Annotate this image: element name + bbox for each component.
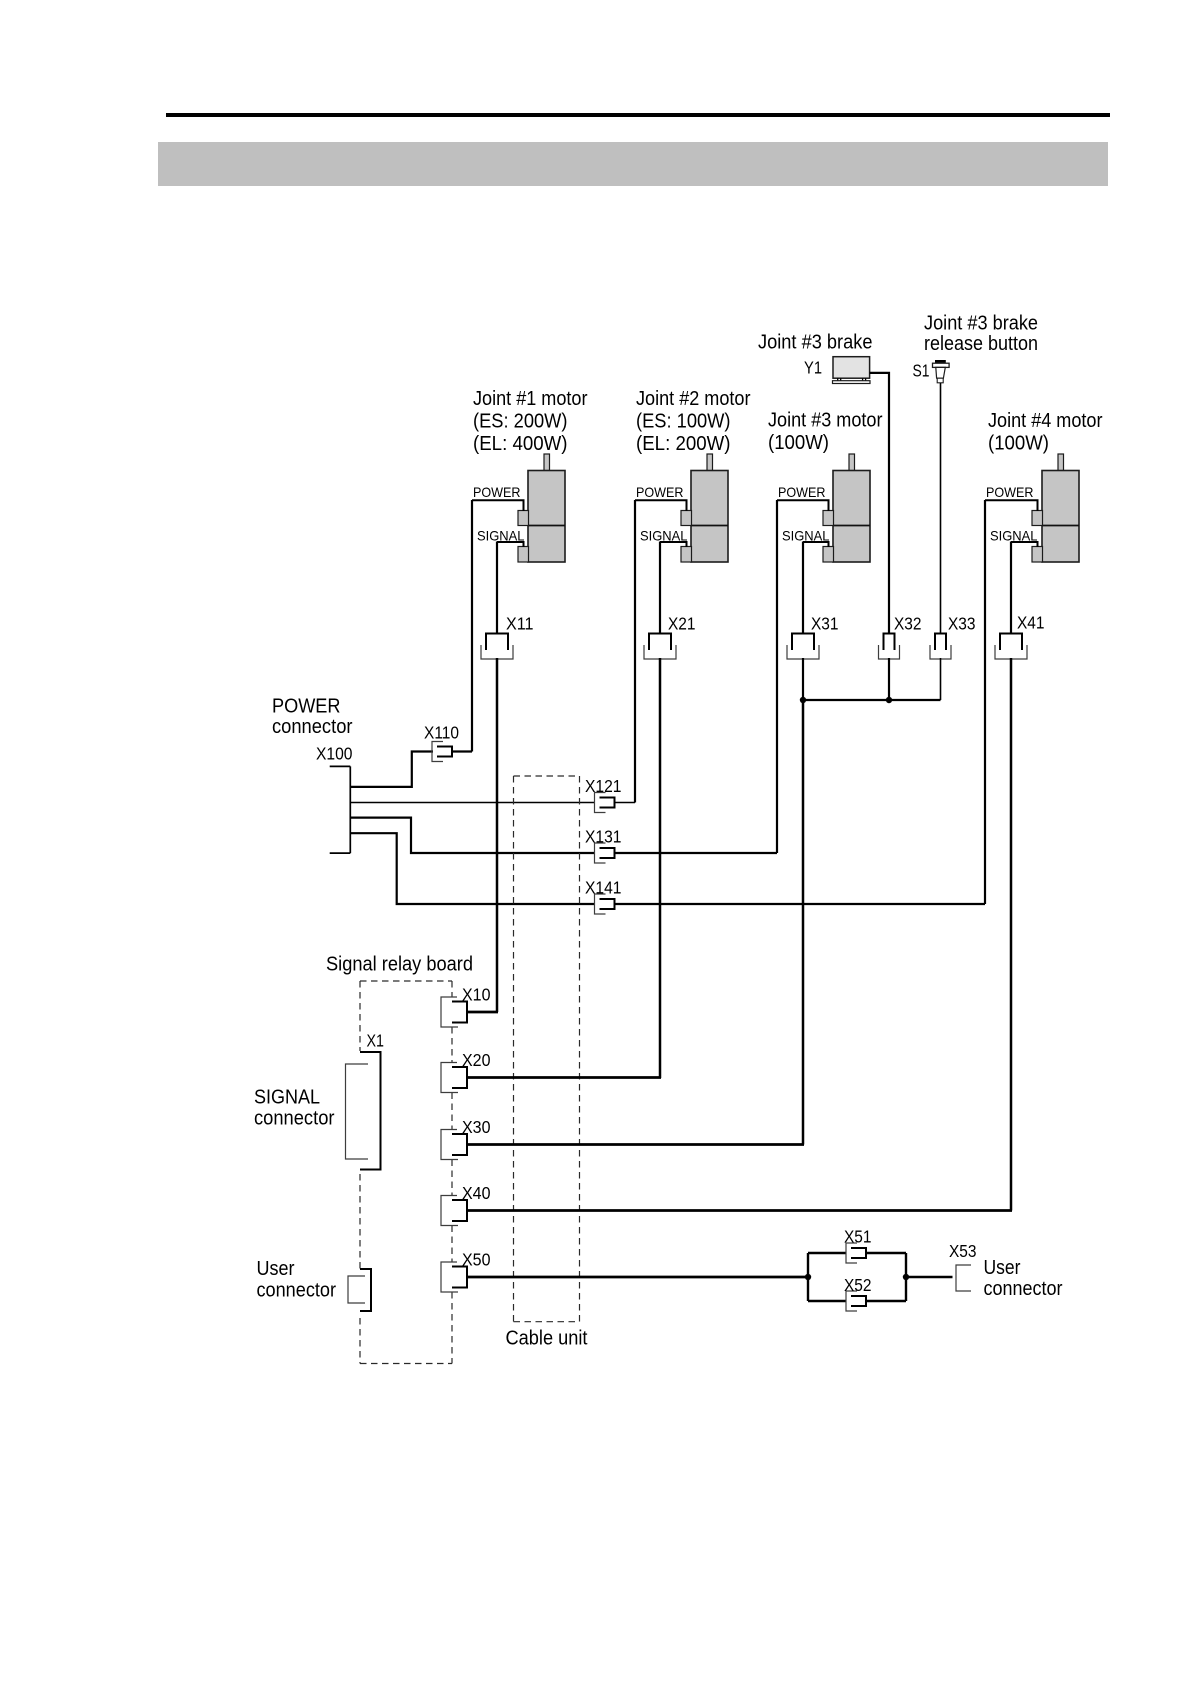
connector X11 [486,634,508,651]
connector X141 [595,894,606,914]
svg-text:X30: X30 [462,1117,491,1137]
svg-text:SIGNAL: SIGNAL [254,1087,320,1109]
wire M3 signal drop to X31 [802,542,804,635]
junction dot X31 [800,697,806,703]
svg-text:Y1: Y1 [804,358,822,378]
motor M4 divider [1042,525,1079,527]
user connector board-edge bar [360,1269,371,1311]
wire X51/X52 right branch [905,1253,907,1301]
connector X50 [441,1262,458,1292]
svg-text:POWER: POWER [272,696,341,718]
svg-text:X52: X52 [844,1275,872,1295]
connector X31 [792,634,814,651]
motor M4 SIGNAL pin tab [1032,547,1043,563]
wire X100 pin2 to X121 [350,802,595,804]
connector X33 [935,634,946,651]
svg-text:Joint #4 motor: Joint #4 motor [988,410,1103,432]
svg-text:(EL: 200W): (EL: 200W) [636,433,731,455]
svg-text:X10: X10 [462,985,491,1005]
wire X100 pin1 to X110 [350,752,433,787]
svg-text:S1: S1 [913,361,930,381]
wire X30 to M3 signal [467,1143,804,1146]
svg-text:release button: release button [924,333,1038,355]
connector X41 [1000,634,1022,651]
wire M1 signal drop to X11 [496,542,498,635]
svg-text:X141: X141 [585,878,622,898]
wire X100 pin3 to X131 [350,818,595,853]
switch S1 button symbol [935,360,946,363]
wire Y1 to X32 [870,373,889,634]
motor M2 POWER pin tab [681,511,692,526]
wire motor M3 SIGNAL lead [803,542,829,547]
wire S1 to X33 [940,383,942,634]
svg-text:X11: X11 [506,614,534,634]
wire X131 to M3 power [615,852,778,854]
signal relay board dashed outline [360,980,452,982]
svg-text:(ES: 100W): (ES: 100W) [636,411,731,433]
connector X52 [846,1291,857,1311]
brake Y1 body [833,357,870,379]
svg-text:X41: X41 [1017,613,1045,633]
connector X110 [432,742,443,762]
wire X41 to X40 run [1010,658,1013,1211]
wire X52 to right branch [866,1300,906,1302]
svg-text:X20: X20 [462,1050,491,1070]
motor M1 body [528,471,565,563]
wire M4 signal drop to X41 [1010,542,1012,635]
connector X30 [441,1130,458,1160]
header rule [166,113,1110,117]
svg-text:POWER: POWER [473,484,521,500]
connector X51 [846,1243,857,1263]
connector X121 [595,793,606,813]
connector X131 [595,843,606,863]
svg-text:Joint #3 motor: Joint #3 motor [768,410,883,432]
svg-text:Cable unit: Cable unit [506,1328,588,1350]
brake Y1 base plate [833,381,871,384]
motor M2 SIGNAL pin tab [681,547,692,563]
connector X40 [441,1196,458,1226]
svg-text:X121: X121 [585,776,622,796]
junction dot right branch [903,1274,909,1280]
wire M2 signal drop to X21 [659,542,661,635]
svg-text:X33: X33 [948,614,976,634]
svg-text:POWER: POWER [778,484,826,500]
motor M3 shaft [849,454,855,471]
wire X20 to M2 signal [467,1076,661,1079]
svg-text:X21: X21 [668,614,696,634]
wire brake junction bus [803,699,941,701]
svg-text:Joint #3 brake: Joint #3 brake [758,332,873,354]
svg-text:Signal relay board: Signal relay board [326,954,473,976]
junction dot X32 [886,697,892,703]
wire X31 to brake junction [802,658,804,700]
svg-text:(EL: 400W): (EL: 400W) [473,433,568,455]
wire motor M3 POWER lead [777,500,829,511]
wire M2 power drop to X121 [634,500,636,803]
motor M4 POWER pin tab [1032,511,1043,526]
wire motor M1 SIGNAL lead [497,542,524,547]
user connector mating bracket [348,1276,365,1303]
wire motor M4 SIGNAL lead [1011,542,1038,547]
svg-text:X40: X40 [462,1183,491,1203]
wire X11 to X10 run [496,658,499,1012]
wire M1 power drop to X110 [471,500,473,752]
svg-text:Joint #2 motor: Joint #2 motor [636,388,751,410]
svg-text:POWER: POWER [636,484,684,500]
motor M3 divider [833,525,870,527]
svg-text:X31: X31 [811,614,839,634]
connector X53 [956,1265,971,1291]
svg-text:X51: X51 [844,1227,872,1247]
svg-text:(100W): (100W) [768,432,829,454]
svg-text:(100W): (100W) [988,433,1049,455]
wire X10 to M1 signal [467,1011,498,1014]
svg-text:connector: connector [254,1108,335,1130]
wire motor M1 POWER lead [472,500,524,511]
motor M4 body [1042,471,1079,563]
wire X50 to user branch [467,1276,808,1279]
svg-text:Joint #1 motor: Joint #1 motor [473,388,588,410]
wire motor M2 POWER lead [635,500,687,511]
svg-text:connector: connector [272,716,353,738]
svg-text:connector: connector [257,1280,337,1302]
svg-text:X50: X50 [462,1250,491,1270]
connector X100 symbol [349,766,351,853]
connector X32 [884,634,895,651]
svg-text:X131: X131 [585,827,622,847]
connector X21 [649,634,671,651]
wire M4 power drop to X141 [984,500,986,904]
connector X20 [441,1063,458,1093]
svg-text:Joint #3 brake: Joint #3 brake [924,313,1038,335]
svg-text:X100: X100 [316,744,353,764]
svg-text:X110: X110 [424,723,459,743]
motor M3 SIGNAL pin tab [823,547,834,563]
svg-text:User: User [257,1258,295,1280]
motor M2 divider [691,525,728,527]
motor M2 shaft [707,454,713,471]
svg-text:POWER: POWER [986,484,1034,500]
header title bar [158,142,1108,186]
wire M3 power drop to X131 [776,500,778,853]
motor M2 body [691,471,728,563]
svg-text:X53: X53 [949,1241,977,1261]
motor M1 divider [528,525,565,527]
wire X141 to M4 power [615,903,986,905]
svg-text:User: User [984,1257,1021,1279]
wire X21 to X20 run [659,658,662,1078]
wire X121 to M2 power [615,802,636,804]
wire X33 below connector [940,658,942,700]
svg-text:X1: X1 [367,1031,385,1051]
connector X10 [441,997,458,1027]
wire X110 to M1 power [452,750,472,752]
wire X31 junction to X30 run [802,700,805,1145]
wire X51/X52 left branch [807,1253,809,1301]
wire into X52 [808,1300,846,1302]
wire X40 to M4 signal [467,1209,1012,1212]
wire into X51 [808,1252,846,1254]
wire motor M4 POWER lead [985,500,1038,511]
brake Y1 feet [837,378,839,381]
svg-text:connector: connector [984,1278,1063,1300]
svg-text:(ES: 200W): (ES: 200W) [473,411,568,433]
connector X1 mating bracket [346,1064,369,1159]
motor M1 POWER pin tab [518,511,529,526]
motor M4 shaft [1058,454,1064,471]
junction dot left branch [805,1274,811,1280]
svg-text:X32: X32 [894,614,922,634]
cable unit dashed outline [514,775,580,777]
motor M1 SIGNAL pin tab [518,547,529,563]
connector X1 board-edge bar [360,1052,381,1170]
motor M1 shaft [544,454,550,471]
wire to X53 [906,1276,953,1278]
wire X51 to right branch [866,1252,906,1254]
motor M3 body [833,471,870,563]
motor M3 POWER pin tab [823,511,834,526]
wire X100 pin4 to X141 [350,833,595,904]
wire motor M2 SIGNAL lead [660,542,687,547]
wire X32 below connector [888,658,890,700]
